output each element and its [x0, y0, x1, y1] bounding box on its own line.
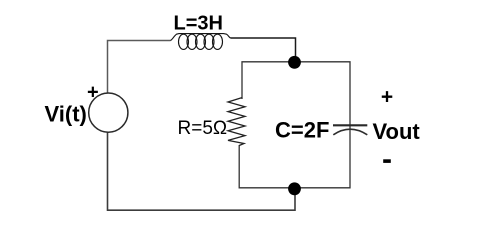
- svg-text:Vout: Vout: [373, 119, 421, 144]
- svg-text:C=2F: C=2F: [275, 118, 329, 143]
- svg-text:+: +: [381, 86, 393, 109]
- svg-text:Vi(t): Vi(t): [45, 102, 87, 127]
- svg-text:L=3H: L=3H: [174, 13, 223, 35]
- svg-text:R=5Ω: R=5Ω: [178, 118, 228, 139]
- svg-text:+: +: [87, 82, 99, 104]
